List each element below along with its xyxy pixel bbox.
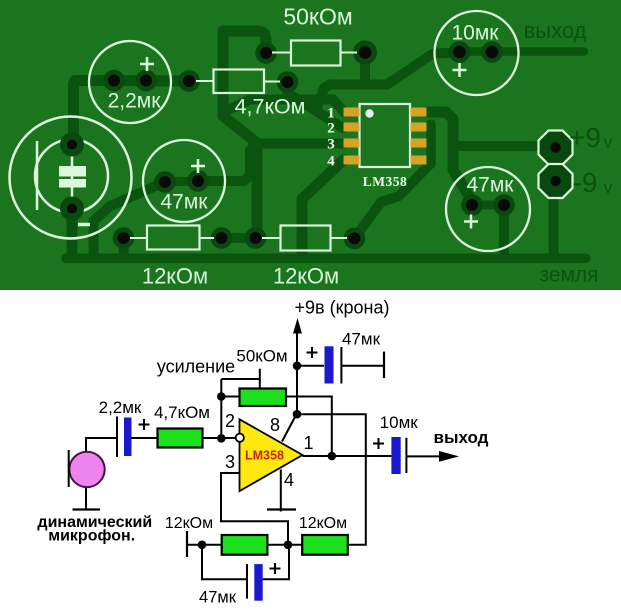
svg-text:усиление: усиление [157, 357, 235, 377]
svg-text:47мк: 47мк [161, 191, 209, 214]
wire mic- to ground rail [67, 210, 78, 253]
capacitor C6 47mk [325, 346, 334, 383]
svg-text:3: 3 [225, 452, 235, 472]
svg-text:1: 1 [327, 106, 335, 122]
pad C2 47mk right [187, 170, 209, 192]
svg-text:10мк: 10мк [452, 22, 500, 45]
svg-text:v: v [604, 133, 613, 152]
pad R2 4,7k right [277, 71, 299, 93]
IC pin 1 pad [344, 108, 360, 117]
power arrow head [293, 318, 302, 334]
leads 12k-2 [262, 237, 347, 239]
svg-text:2,2мк: 2,2мк [99, 398, 142, 417]
IC pin 6 pad [411, 139, 427, 148]
resistor R5 4,7kOm [158, 429, 203, 448]
svg-text:3: 3 [327, 137, 335, 153]
IC pin 7 pad [411, 123, 427, 132]
wire pot wiper stem [259, 369, 261, 389]
wire +9v branch [453, 141, 542, 151]
pad R3 12k right [211, 227, 233, 249]
microphone center line [71, 144, 74, 209]
wire C7 10mk right to arrow [406, 455, 448, 457]
wire pin5 to R 12k-2 right pad [354, 164, 430, 238]
ground bar pin4 [267, 508, 296, 510]
microphone electrode line [68, 450, 70, 487]
wire middle pads joint [222, 233, 256, 243]
svg-text:12кОм: 12кОм [142, 264, 208, 289]
junction node pot wiper [217, 392, 226, 401]
microphone outer circle [10, 117, 132, 239]
wire 12k row [187, 521, 302, 545]
junction node +9v / C6 [293, 362, 302, 371]
PCB silk labels [108, 4, 515, 289]
wire pin1 to net [224, 100, 344, 113]
svg-text:2,2мк: 2,2мк [108, 90, 162, 113]
IC pin1 marker dot [365, 109, 373, 117]
hole pad +9v [550, 142, 560, 152]
wire 50k-left to R 4,7k to middle pad (net pin1) [223, 31, 266, 238]
pad R4 12k right [344, 228, 366, 250]
pad R1 50k left [255, 42, 277, 64]
pad R4 12k left [245, 227, 267, 249]
capacitor C2 47mk circle [143, 140, 225, 222]
wire pin8 diagonal [282, 415, 296, 442]
wire R6 right to output (feedback) [286, 397, 332, 456]
wire pin3 to 12k junction [221, 473, 288, 545]
svg-text:LM358: LM358 [245, 449, 284, 463]
capacitor C1 2,2mk circle [89, 41, 171, 123]
wire C2 47mk left to ground [94, 182, 166, 256]
microphone capacitor bottom bar [59, 179, 86, 188]
ground rail [66, 254, 586, 264]
wire C8 right up to junction [263, 545, 289, 579]
resistor R8 12kOm [302, 535, 348, 555]
svg-text:10мк: 10мк [380, 413, 419, 432]
wire 12k-1 left down to C8 [202, 545, 247, 580]
svg-text:4: 4 [327, 154, 335, 170]
junction node 12k left [198, 541, 207, 550]
PCB board background [0, 0, 621, 290]
junction node pin2 input [217, 434, 226, 443]
svg-text:1: 1 [303, 433, 313, 453]
svg-text:+9: +9 [569, 122, 601, 153]
IC pin 4 pad [344, 156, 360, 165]
wire output [303, 455, 392, 457]
capacitor C5 2,2mk plate [116, 417, 118, 458]
pad R1 50k right [353, 41, 377, 65]
ground bar mic [73, 508, 101, 510]
svg-text:+9в (крона): +9в (крона) [295, 298, 390, 318]
wire to R6 50k left [221, 396, 239, 398]
wire pin4 to ground rail [302, 160, 344, 255]
leads 50k [272, 52, 357, 54]
wire mic+ to C1 2,2mk [74, 81, 115, 141]
pad node input [178, 70, 200, 92]
wire output (vyhod) [460, 47, 585, 56]
wire power node right and down to 12k-2 [297, 414, 366, 545]
pad C1 2,2mk left [103, 70, 125, 92]
svg-text:4: 4 [284, 470, 294, 490]
wire pot wiper horizontal [221, 378, 259, 380]
plus C7 10mk [373, 438, 384, 449]
svg-text:12кОм: 12кОм [165, 515, 213, 532]
wire -9v to ground rail [549, 183, 559, 254]
hole pad -9v [550, 176, 560, 186]
output arrow head [439, 451, 459, 462]
svg-text:2: 2 [225, 411, 235, 431]
wire R5 to pin2 [203, 437, 237, 439]
resistor R2 4,7k outline [214, 70, 265, 94]
schematic labels [37, 298, 488, 607]
pad C3 10mk left [449, 41, 471, 63]
resistor R4 12k outline [281, 226, 331, 251]
plus C1 [140, 57, 154, 71]
resistor R3 12k outline [147, 226, 200, 250]
IC pin 5 pad [411, 156, 427, 165]
pad C2 47mk left [154, 171, 176, 193]
pad microphone bottom [60, 197, 84, 221]
resistor R6 50kOm [240, 389, 287, 407]
leads 4,7k [196, 80, 280, 83]
pad R3 12k left [113, 227, 135, 249]
svg-text:LM358: LM358 [363, 174, 408, 189]
svg-text:12кОм: 12кОм [299, 515, 347, 532]
terminal bar C6 [383, 352, 385, 379]
schematic background [0, 290, 621, 611]
pad C4 47mk left [461, 194, 483, 216]
junction node output [328, 452, 337, 461]
plus C5 2,2mk [139, 419, 150, 430]
wire pin2 node up to 50k node [220, 379, 222, 438]
minus mic [78, 223, 90, 227]
wire pin8 to +9v and C4 47mk [427, 112, 473, 205]
svg-text:47мк: 47мк [342, 330, 381, 349]
microphone inner circle [35, 140, 108, 213]
wire power to C6 47mk [297, 365, 324, 367]
svg-text:выход: выход [434, 428, 489, 447]
resistor R1 50k outline [291, 41, 341, 66]
wire pin3 to C2 47mk [198, 144, 344, 182]
IC pin 8 pad [411, 108, 427, 117]
wire pin4 to ground [280, 470, 282, 512]
capacitor C7 10mk [391, 437, 400, 474]
microphone capacitor top bar [59, 166, 86, 177]
silkscreen [10, 11, 531, 251]
plus C6 47mk [307, 347, 318, 358]
terminal bar 12k left [186, 531, 188, 557]
pad C4 47mk right [493, 194, 515, 216]
wire 50k-right stub [360, 53, 370, 85]
plus C8 47mk [270, 563, 281, 574]
wire +9v power line [296, 328, 298, 414]
svg-text:47мк: 47мк [467, 174, 515, 197]
PCB copper labels [524, 18, 613, 287]
wire mic to ground [85, 487, 87, 509]
wire C5 to R5 [132, 437, 158, 439]
junction node 12k middle [284, 541, 293, 550]
wire mic to C5 [86, 438, 117, 452]
plus C4 [464, 215, 478, 229]
pad microphone top [60, 133, 84, 157]
wire C1 pads to pad node [114, 75, 189, 87]
plus C3 [453, 63, 467, 77]
IC pin 3 pad [344, 139, 360, 148]
wire C4 47mk right to ground [499, 208, 509, 254]
wire pins 5-7 tie bar [426, 124, 436, 164]
wire R 4,7k right to pin2 [288, 82, 344, 128]
svg-text:8: 8 [270, 415, 280, 435]
octagon pad -9v [539, 164, 573, 198]
svg-text:50кОм: 50кОм [283, 4, 352, 30]
octagon pad +9v [539, 131, 573, 165]
op-amp U1 triangle [240, 419, 303, 491]
wire R 12k left pad to ground [119, 240, 129, 254]
resistor R7 12kOm [222, 535, 268, 555]
svg-text:выход: выход [524, 18, 587, 43]
microphone M1 [69, 452, 104, 487]
pad C1 2,2mk right [135, 70, 157, 92]
IC pin 2 pad [344, 123, 360, 132]
wire 50k-right / 10mk-left / pin2 net [316, 53, 460, 112]
wire C4 pads joint [472, 201, 504, 210]
svg-text:2: 2 [327, 121, 335, 137]
svg-text:47мк: 47мк [199, 589, 237, 607]
svg-text:земля: земля [539, 264, 598, 287]
svg-text:12кОм: 12кОм [273, 264, 339, 289]
svg-text:4,7кОм: 4,7кОм [154, 403, 210, 422]
IC U1 LM358 body [360, 104, 411, 167]
pad C3 10mk right [481, 41, 503, 63]
capacitor C3 10mk circle [435, 11, 519, 95]
plus C2 [191, 159, 205, 173]
svg-text:4,7кОм: 4,7кОм [235, 95, 306, 119]
svg-text:микрофон.: микрофон. [48, 528, 135, 545]
capacitor C8 47mk bottom [246, 564, 248, 599]
junction node pin8 supply [293, 410, 302, 419]
svg-text:v: v [604, 178, 613, 197]
wire C6 right [341, 365, 384, 367]
leads 12k-1 [130, 237, 214, 239]
capacitor C4 47mk circle [446, 167, 530, 251]
svg-text:-9: -9 [573, 167, 598, 198]
microphone left electrode line [36, 141, 39, 210]
svg-text:50кОм: 50кОм [236, 347, 287, 366]
wire C2 pads joint [165, 177, 198, 186]
pin2 input circle [236, 434, 244, 442]
